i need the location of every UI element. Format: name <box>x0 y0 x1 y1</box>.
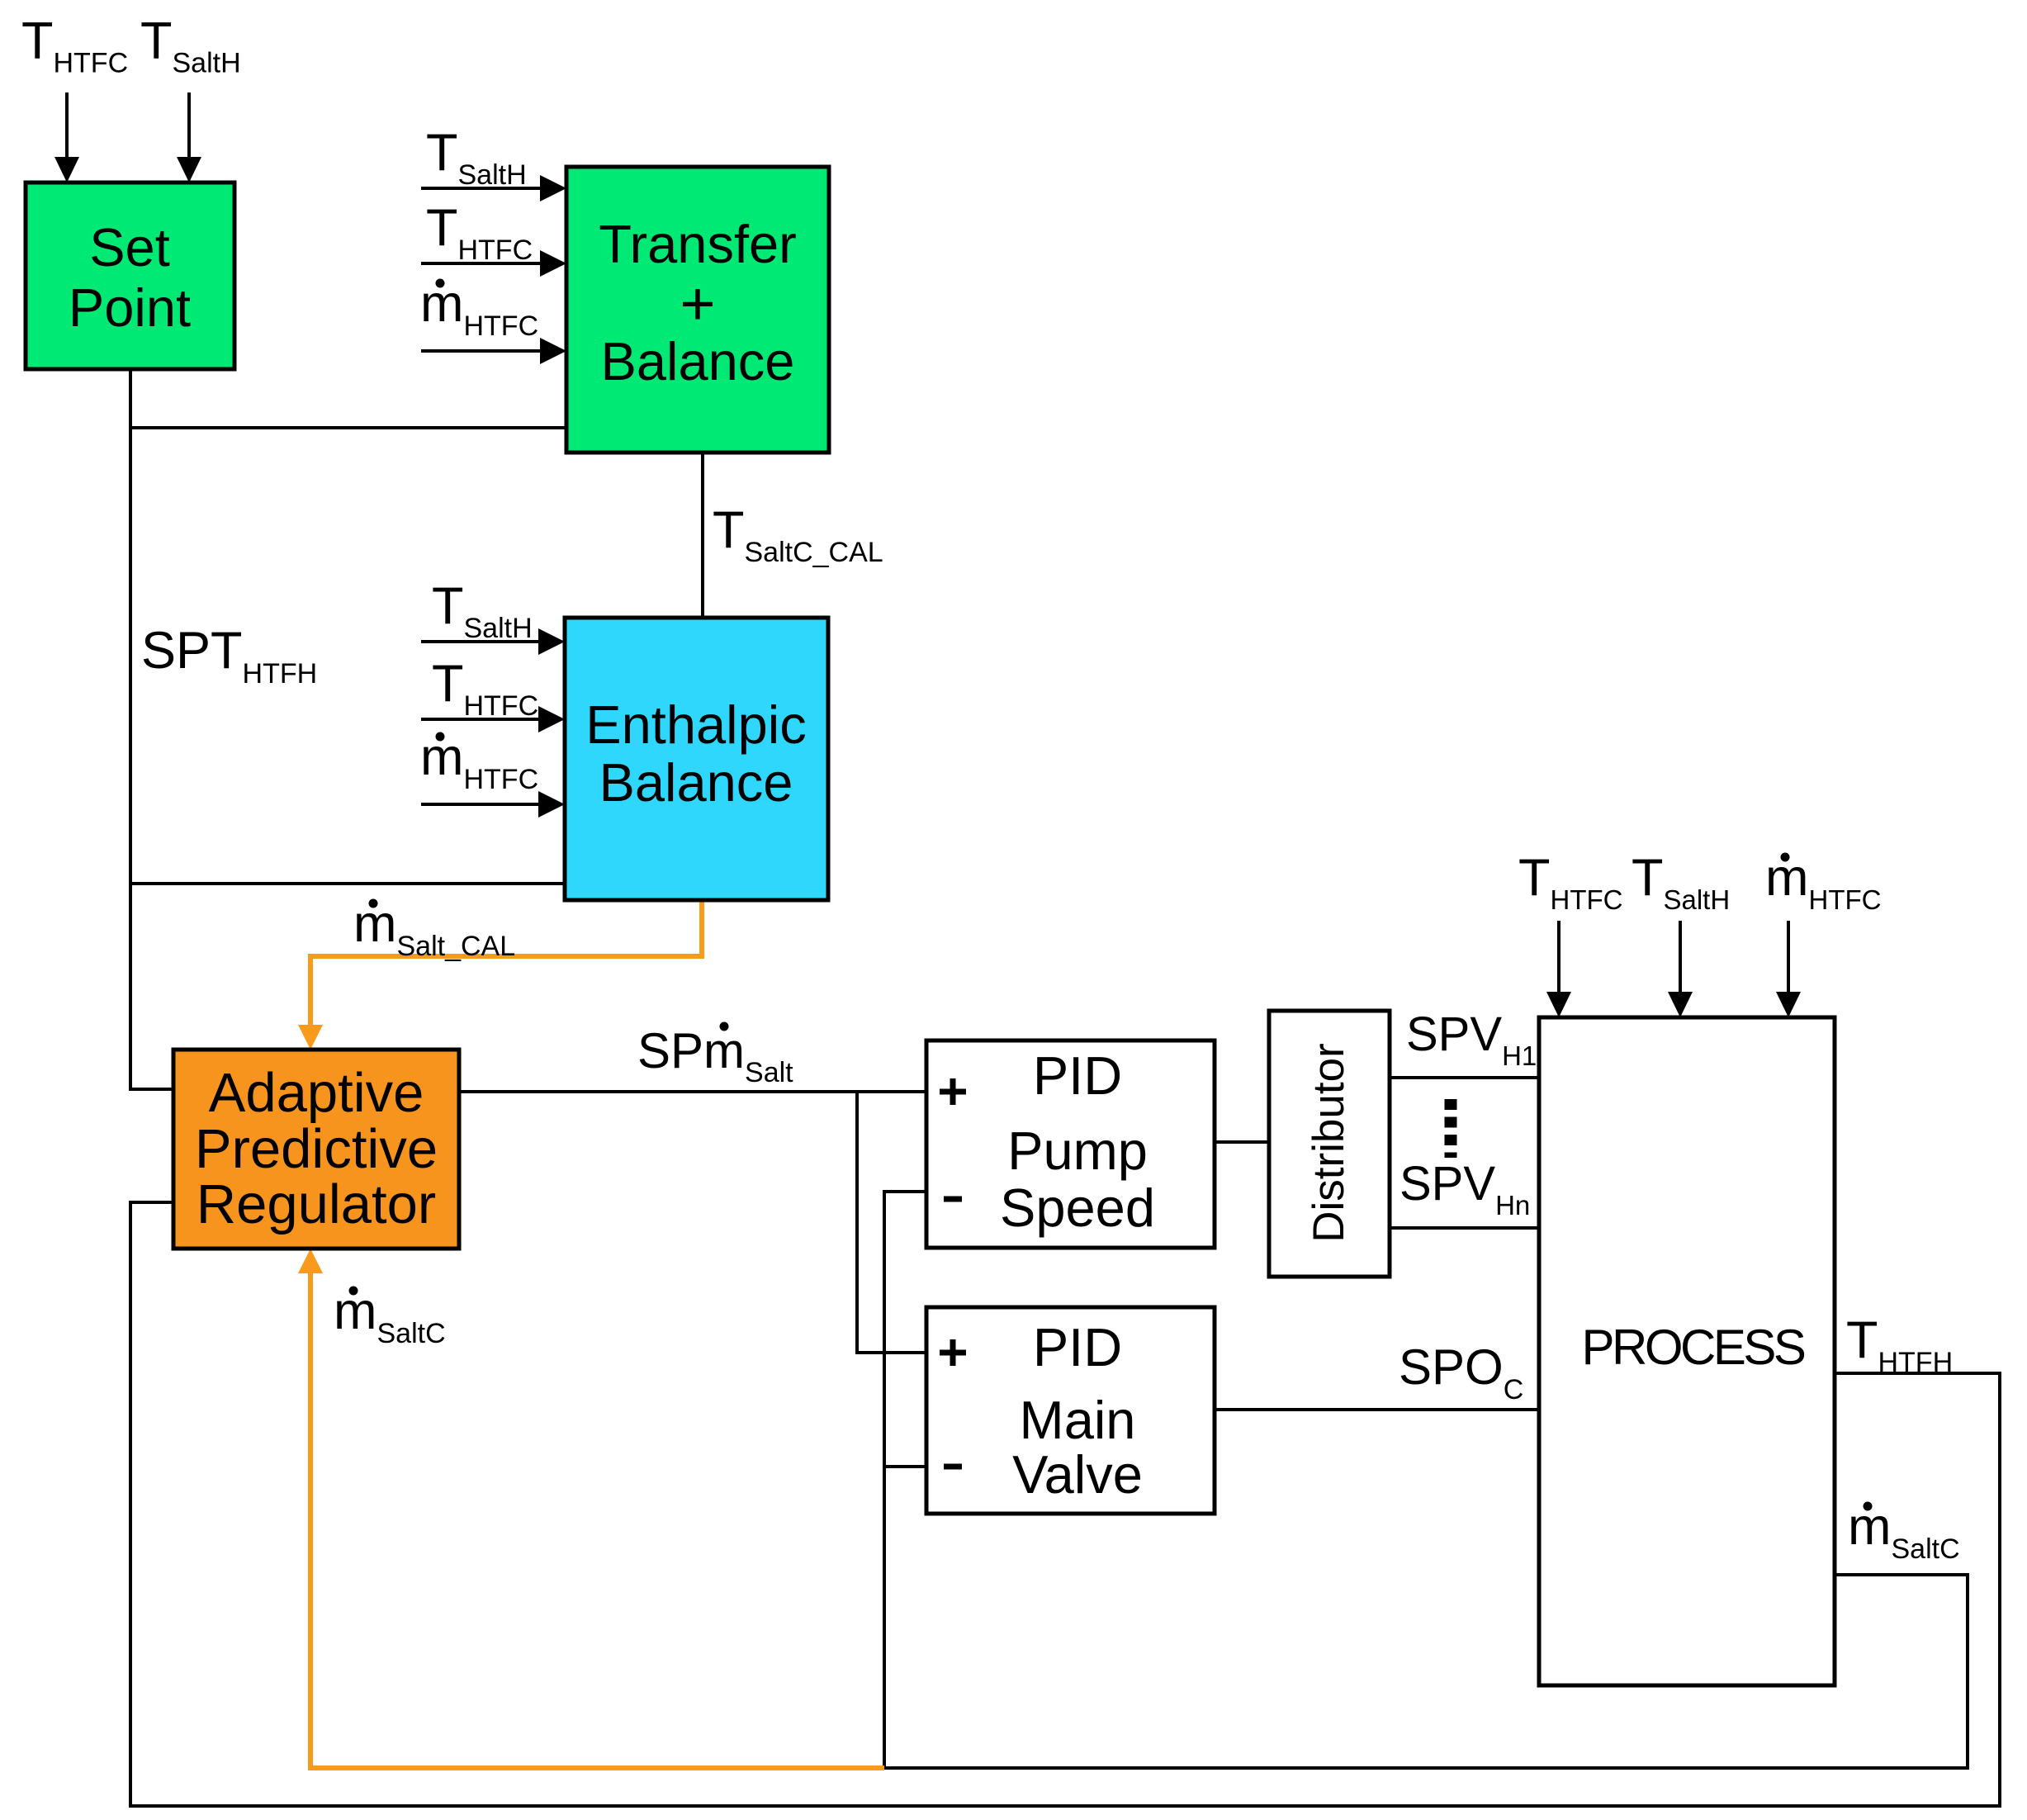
svg-text:Predictive: Predictive <box>195 1118 438 1180</box>
svg-text:+: + <box>680 269 715 338</box>
svg-text:Point: Point <box>69 277 191 338</box>
svg-text:Main: Main <box>1020 1390 1136 1450</box>
svg-text:Balance: Balance <box>599 752 793 813</box>
svg-text:PID: PID <box>1033 1317 1122 1377</box>
svg-text:Transfer: Transfer <box>599 214 797 274</box>
svg-text:PROCESS: PROCESS <box>1582 1320 1805 1375</box>
svg-text:Regulator: Regulator <box>197 1173 437 1235</box>
svg-text:Speed: Speed <box>1000 1178 1155 1238</box>
svg-text:PID: PID <box>1033 1045 1122 1106</box>
svg-text:Set: Set <box>89 217 170 277</box>
svg-text:Enthalpic: Enthalpic <box>585 694 806 755</box>
svg-text:Pump: Pump <box>1007 1121 1148 1181</box>
svg-text:Distributor: Distributor <box>1305 1043 1353 1243</box>
svg-text:Adaptive: Adaptive <box>209 1062 424 1124</box>
svg-text:Balance: Balance <box>601 331 795 391</box>
svg-text:Valve: Valve <box>1012 1444 1143 1505</box>
